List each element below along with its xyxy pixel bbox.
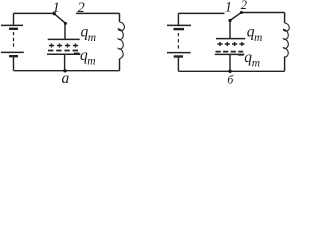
svg-text:m: m <box>254 32 262 44</box>
svg-text:2: 2 <box>78 0 85 16</box>
svg-text:m: m <box>88 32 96 44</box>
svg-text:1: 1 <box>53 0 60 16</box>
svg-text:m: m <box>252 57 260 69</box>
svg-text:2: 2 <box>241 0 247 12</box>
svg-text:а: а <box>62 70 70 87</box>
svg-text:m: m <box>87 56 95 68</box>
svg-text:1: 1 <box>225 0 232 15</box>
svg-text:б: б <box>227 73 234 87</box>
